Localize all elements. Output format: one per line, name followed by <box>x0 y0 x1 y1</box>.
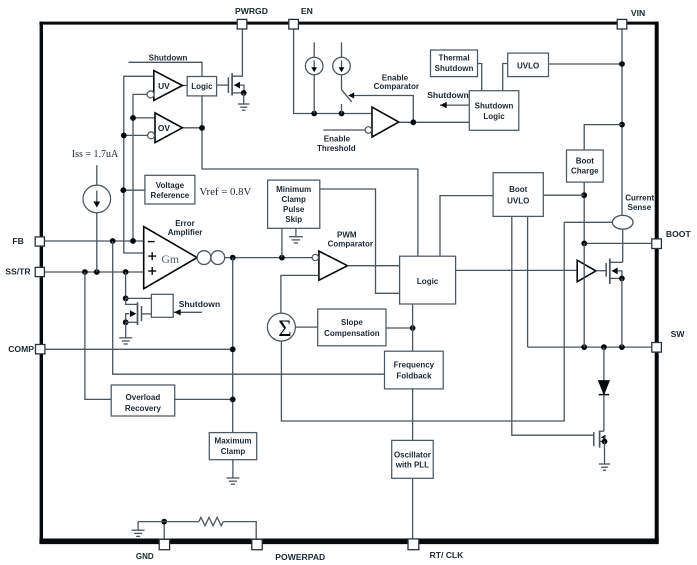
junction boot UVLO tap <box>581 192 587 198</box>
pin POWERPAD <box>252 539 262 549</box>
wire driver to high-side gate <box>596 270 606 272</box>
wire Q-ss body to source node <box>126 314 129 323</box>
junction discharge FET drain node <box>123 296 129 302</box>
svg-text:Shutdown: Shutdown <box>427 90 469 100</box>
current sense ellipse <box>612 215 633 229</box>
junction COMP pin on column <box>230 346 236 352</box>
svg-text:Logic: Logic <box>417 277 439 286</box>
svg-text:Σ: Σ <box>278 316 291 341</box>
junction Q-ss source node <box>123 319 129 325</box>
svg-text:Threshold: Threshold <box>317 144 356 153</box>
svg-text:Thermal: Thermal <box>438 54 469 63</box>
svg-text:Maximum: Maximum <box>215 437 252 446</box>
wire UVLO to shutdown logic <box>503 64 508 91</box>
junction slope comp output <box>410 325 416 331</box>
arrowhead shutdown into buffer <box>174 309 181 315</box>
wire COMP column down to maximum clamp <box>232 258 234 433</box>
pin GND <box>159 539 169 549</box>
junction VIN to boot charge <box>619 122 625 128</box>
svg-text:with PLL: with PLL <box>395 461 429 470</box>
slope compensation box <box>318 309 386 346</box>
junction OV+ tap on FB column <box>130 115 136 121</box>
svg-text:UVLO: UVLO <box>507 196 529 205</box>
svg-text:Vref = 0.8V: Vref = 0.8V <box>199 186 251 198</box>
wire voltage reference to Vref rail <box>123 189 145 191</box>
junction OV- tap on Vref rail <box>121 133 127 139</box>
wire error amp output to PWM comparator <box>225 257 312 259</box>
wire shutdown buffer to Q-ss gate <box>142 313 152 315</box>
svg-text:Sense: Sense <box>628 203 652 212</box>
svg-text:Reference: Reference <box>151 191 190 200</box>
svg-text:Clamp: Clamp <box>221 447 246 456</box>
error amp output buffer circle 2 <box>211 251 225 265</box>
svg-text:Shutdown: Shutdown <box>475 102 514 111</box>
svg-text:Current: Current <box>625 193 654 202</box>
svg-text:Boot: Boot <box>509 185 528 194</box>
junction voltage reference tap <box>120 187 126 193</box>
wire resistor to POWERPAD pin <box>223 522 256 540</box>
hysteresis switch bottom stub <box>341 104 343 114</box>
transistor Q-ls channel bar <box>599 431 601 448</box>
wire slope compensation to logic column <box>386 327 413 329</box>
wire Q-ls body to source node <box>604 437 607 441</box>
comparator enable triangle <box>372 107 399 137</box>
svg-text:RT/ CLK: RT/ CLK <box>430 550 465 560</box>
junction minimum clamp tap <box>279 255 285 261</box>
wire minimum clamp down to COMP rail <box>281 228 283 257</box>
svg-text:Error: Error <box>175 219 195 228</box>
svg-text:PWRGD: PWRGD <box>235 6 268 16</box>
wire VIN to boot charge <box>584 125 622 150</box>
wire high-side source down to SW <box>621 278 623 347</box>
transistor Q-ss drain stub <box>126 298 138 304</box>
svg-text:GND: GND <box>136 552 154 561</box>
wire comparator output feedback to switch <box>351 96 414 123</box>
svg-text:Oscillator: Oscillator <box>394 450 431 459</box>
wire GND pin up to star point <box>163 522 165 540</box>
error amp output buffer circle 1 <box>197 251 211 265</box>
svg-text:Shutdown: Shutdown <box>435 64 474 73</box>
current source I2 circle <box>333 57 351 75</box>
junction Q-hs source node <box>619 276 625 282</box>
svg-text:Shutdown: Shutdown <box>179 299 221 309</box>
hysteresis switch blade <box>342 90 352 102</box>
bubble enable threshold inverting input <box>365 127 372 134</box>
wire BOOT line to pin <box>584 242 656 244</box>
comparator OV triangle <box>155 113 182 143</box>
wire SW line to pin <box>528 346 657 348</box>
wire enable threshold input <box>323 129 365 131</box>
wire boot UVLO to low-side FET gate <box>512 216 594 435</box>
svg-text:Skip: Skip <box>285 215 302 224</box>
svg-text:OV: OV <box>158 123 171 133</box>
boot charge box <box>567 150 604 182</box>
current source Iss arrow <box>96 191 98 205</box>
wire oscillator to RT/CLK pin <box>412 478 414 540</box>
ground below maximum clamp <box>232 460 234 478</box>
svg-text:Shutdown: Shutdown <box>149 54 188 63</box>
ground below Q-ls <box>604 442 606 464</box>
svg-text:Logic: Logic <box>483 112 505 121</box>
transistor Q-hs gate bar <box>605 263 607 277</box>
svg-text:Enable: Enable <box>324 134 351 143</box>
junction Iss source on SS/TR line <box>94 269 100 275</box>
transistor Q-ss source stub <box>126 321 138 323</box>
voltage reference box <box>145 175 195 204</box>
wire main logic output to gate driver <box>456 269 578 271</box>
svg-text:Foldback: Foldback <box>396 372 432 381</box>
ground below Q-pg <box>243 93 245 104</box>
current source I1 circle <box>305 57 323 75</box>
wire shutdown signal into buffer box <box>174 311 202 313</box>
logic box (UV/OV power good) <box>187 77 216 96</box>
wire boot charge down to BOOT line <box>583 182 585 243</box>
wire minimum clamp to main logic <box>320 189 400 293</box>
wire EN pin down and across to enable comparator <box>294 29 372 114</box>
maximum clamp box <box>209 433 256 460</box>
wire COMP pin line <box>45 348 233 350</box>
logic box (main PWM logic) <box>400 256 456 304</box>
pin COMP <box>36 345 45 354</box>
wire SS/TR down and across to overload recovery <box>85 272 111 399</box>
transistor Q-ss body arrow <box>130 310 136 317</box>
svg-text:Charge: Charge <box>571 167 599 176</box>
transistor Q-hs source stub <box>610 277 622 279</box>
current source I2 arrow <box>341 61 343 70</box>
current source Iss circle <box>83 185 111 213</box>
wire OV comparator output <box>182 127 202 129</box>
wire logic box to PWRGD FET gate <box>217 84 229 86</box>
IC outer border left edge <box>40 22 43 543</box>
svg-text:Enable: Enable <box>382 73 409 82</box>
pin EN <box>289 19 299 29</box>
junction BOOT rail <box>581 241 587 247</box>
junction diode anode at SW <box>601 344 607 350</box>
gate driver triangle <box>577 260 596 282</box>
wire thermal shutdown to shutdown logic <box>478 64 482 91</box>
svg-text:UV: UV <box>158 81 170 91</box>
pin RT/CLK <box>408 539 419 550</box>
wire OV+ input from FB column <box>133 117 155 119</box>
transistor Q-pg channel bar <box>231 73 233 96</box>
IC outer border right edge <box>655 22 659 543</box>
svg-text:Voltage: Voltage <box>156 181 185 190</box>
comparator PWM triangle <box>319 251 348 280</box>
current source I1 arrow <box>313 61 315 70</box>
ground at GND star point <box>137 522 139 530</box>
shutdown buffer box <box>151 294 173 317</box>
svg-text:Pulse: Pulse <box>283 205 305 214</box>
svg-text:EN: EN <box>301 6 313 16</box>
oscillator box <box>392 440 434 478</box>
wire overload recovery output <box>175 398 233 400</box>
pin FB <box>35 237 44 246</box>
bubble OV inverting input <box>148 132 155 139</box>
wire FB pin to error amplifier - input <box>44 240 143 242</box>
svg-text:SW: SW <box>671 329 686 339</box>
current source Iss stem top <box>96 165 98 185</box>
wire current sense into ellipse <box>564 221 612 223</box>
svg-text:Slope: Slope <box>341 318 363 327</box>
transistor Q-ls source stub <box>600 441 605 443</box>
current source I1 stem bottom <box>313 75 315 114</box>
junction enable comparator output <box>410 119 416 125</box>
junction current source 1 on EN line <box>311 111 317 117</box>
wire drain node to shutdown buffer box <box>126 297 152 299</box>
junction SS/TR to overload recovery branch <box>82 269 88 275</box>
transistor Q-ss gate bar <box>141 306 143 321</box>
op-amp error amplifier triangle <box>144 227 197 289</box>
svg-text:Gm: Gm <box>161 252 179 266</box>
transistor Q-pg gate bar <box>227 77 229 93</box>
wire Vref rail: UV+ input down to error amp + input <box>124 76 154 253</box>
svg-text:Iss = 1.7uA: Iss = 1.7uA <box>72 149 119 160</box>
summing node circle <box>267 313 295 341</box>
frequency foldback box <box>385 351 444 389</box>
junction current source 2 hysteresis on EN line <box>339 111 345 117</box>
wire shutdown output arrow <box>440 104 469 106</box>
wire summing node to slope compensation <box>295 326 317 328</box>
transistor Q-ls drain stub <box>600 430 604 432</box>
junction overload recovery on column <box>230 397 236 403</box>
svg-text:Recovery: Recovery <box>125 404 162 413</box>
wire SS column to discharge FET <box>125 272 127 298</box>
current source I2 stem top <box>341 42 343 57</box>
svg-text:Boot: Boot <box>576 156 595 165</box>
wire boot UVLO right to boot rail <box>543 194 584 196</box>
wire FB down and across to frequency foldback <box>113 241 385 374</box>
comparator UV triangle <box>154 71 183 101</box>
svg-text:Logic: Logic <box>191 82 213 91</box>
svg-text:FB: FB <box>12 236 23 246</box>
wire main logic down to frequency foldback <box>412 304 414 351</box>
svg-text:Minimum: Minimum <box>276 185 311 194</box>
wire UV comparator output to logic box <box>182 85 187 87</box>
pin PWRGD <box>237 19 247 29</box>
transistor Q-ss channel bar <box>137 302 139 325</box>
wire OV- input from Vref rail <box>124 134 148 136</box>
svg-text:PWM: PWM <box>337 230 357 239</box>
wire star point to resistor <box>164 521 199 523</box>
svg-text:POWERPAD: POWERPAD <box>275 552 325 562</box>
diode D1 <box>599 381 609 394</box>
wire enable comparator output to shutdown logic <box>399 121 470 123</box>
thermal shutdown box <box>431 50 478 77</box>
wire diode cathode to low-side drain <box>603 395 605 432</box>
shutdown logic box <box>469 91 519 131</box>
pin SS/TR <box>35 267 44 276</box>
ground below Q-ss <box>125 322 127 337</box>
current source I2 stem to switch <box>341 75 343 90</box>
svg-text:Amplifier: Amplifier <box>168 228 203 237</box>
junction high-side source at SW <box>619 344 625 350</box>
svg-text:BOOT: BOOT <box>666 229 692 239</box>
wire PWRGD pin to FET drain <box>232 29 242 77</box>
transistor Q-ls body arrow <box>601 435 606 440</box>
svg-text:Comparator: Comparator <box>374 82 419 91</box>
wire boot UVLO to SW line <box>527 216 529 347</box>
svg-text:Compensation: Compensation <box>324 329 380 338</box>
svg-text:VIN: VIN <box>631 8 645 18</box>
wire PWM comparator output to logic <box>348 265 400 267</box>
UVLO box <box>508 53 549 77</box>
resistor GND-POWERPAD <box>199 517 223 525</box>
junction COMP node at error amp output <box>230 255 236 261</box>
error amp plus sign lower <box>148 267 156 275</box>
arrowhead shutdown output <box>440 102 447 108</box>
transistor Q-hs channel bar <box>609 259 611 285</box>
transistor Q-hs drain stub <box>610 261 623 263</box>
svg-text:Comparator: Comparator <box>328 239 373 248</box>
transistor Q-pg source stub <box>232 92 244 94</box>
wire Shutdown overline to UV/OV logic <box>129 62 203 76</box>
svg-text:Clamp: Clamp <box>281 195 306 204</box>
minimum clamp pulse skip box <box>268 180 320 228</box>
svg-text:UVLO: UVLO <box>517 61 539 70</box>
IC outer border bottom edge <box>39 538 658 544</box>
junction BOOT rail at SW <box>581 344 587 350</box>
wire Q-hs body to source node <box>618 271 622 279</box>
wire UVLO to VIN rail <box>549 63 623 65</box>
junction SS/TR to discharge FET branch <box>123 269 129 275</box>
junction Q-ls source node <box>602 439 608 445</box>
wire summing node down and across to current sense <box>281 222 564 421</box>
junction OV output on logic column <box>199 125 205 131</box>
svg-text:SS/TR: SS/TR <box>5 267 31 277</box>
wire current sense to high-side drain <box>622 229 624 262</box>
junction Q-pg source node <box>241 90 247 96</box>
svg-text:Frequency: Frequency <box>394 361 435 370</box>
wire SW to diode anode <box>603 347 605 381</box>
pin BOOT <box>652 239 662 249</box>
error amp minus sign <box>148 241 155 243</box>
wire star point to ground symbol <box>138 521 164 523</box>
svg-text:Overload: Overload <box>126 393 161 402</box>
pin SW <box>652 343 662 353</box>
transistor Q-pg body arrow <box>234 82 240 89</box>
junction FB to UV/OV branch <box>130 238 136 244</box>
arrowhead feedback to switch <box>348 93 354 99</box>
wire main logic up to boot UVLO <box>440 196 493 257</box>
wire UV/OV logic down and across to main logic <box>202 96 418 256</box>
boot UVLO box <box>493 173 543 217</box>
transistor Q-hs body arrow <box>611 268 617 275</box>
wire UV- input from FB column <box>133 94 147 241</box>
wire VIN pin down to current sense <box>621 29 623 216</box>
overload recovery box <box>111 385 175 416</box>
wire Q-pg body to source node <box>240 85 244 93</box>
junction FB to frequency foldback branch <box>110 238 116 244</box>
wire frequency foldback to oscillator <box>412 389 414 441</box>
bubble UV inverting input <box>147 91 154 98</box>
wire BOOT rail down through driver to SW <box>583 243 585 347</box>
ground below minimum clamp <box>295 228 297 236</box>
current source Iss stem bottom <box>96 213 98 272</box>
IC outer border top edge <box>39 22 658 25</box>
transistor Q-ls gate bar <box>593 432 595 446</box>
junction GND star point <box>161 519 167 525</box>
current source I1 stem top <box>313 42 315 57</box>
svg-text:COMP: COMP <box>8 344 34 354</box>
error amp plus sign upper <box>148 252 156 260</box>
pin VIN <box>617 19 627 29</box>
junction VIN to UVLO <box>619 61 625 67</box>
wire slope sum to PWM lower input <box>281 275 319 313</box>
wire SS/TR pin to error amplifier + input <box>44 271 143 273</box>
bubble PWM inverting input <box>312 254 318 260</box>
